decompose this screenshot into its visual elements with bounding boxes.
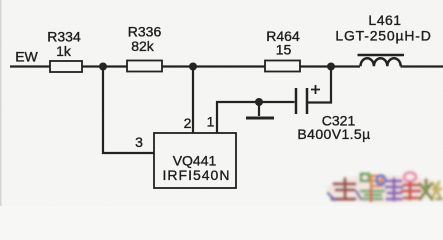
wire cap to node C — [308, 67, 331, 103]
svg-text:EW: EW — [15, 49, 38, 65]
resistor R334 — [47, 29, 82, 73]
node C junction dot — [327, 63, 335, 71]
svg-text:3: 3 — [135, 134, 143, 150]
svg-text:1: 1 — [207, 114, 215, 130]
wm char5 — [420, 180, 442, 199]
capacitor C321 — [296, 85, 371, 142]
wire main rail left segment — [10, 65, 50, 67]
svg-text:82k: 82k — [131, 38, 155, 54]
ground — [246, 102, 274, 118]
wire inductor to right edge — [401, 65, 443, 67]
wm underwash — [327, 175, 443, 203]
inductor L461 — [335, 12, 431, 66]
svg-text:1k: 1k — [56, 43, 72, 59]
svg-text:B400V1.5µ: B400V1.5µ — [297, 126, 370, 142]
wire R464 to inductor — [300, 65, 360, 67]
wire R334 to node A — [82, 65, 127, 67]
wm char4 — [402, 173, 420, 200]
wire pin 1 up and right to cap — [217, 102, 295, 133]
wire node B down to pin 2 — [192, 67, 194, 134]
wm char1 — [328, 179, 361, 200]
IC VQ441 IRFI540N — [154, 133, 236, 188]
wm char2 — [361, 174, 386, 201]
svg-text:2: 2 — [184, 115, 192, 131]
svg-text:L461: L461 — [368, 12, 401, 28]
node D junction dot — [255, 98, 263, 106]
svg-text:LGT-250µH-D: LGT-250µH-D — [335, 28, 431, 44]
wire node A down to pin 3 — [103, 67, 154, 154]
wm char3 — [386, 179, 402, 200]
svg-text:IRFI540N: IRFI540N — [163, 167, 231, 183]
resistor R336 — [127, 24, 162, 72]
svg-text:15: 15 — [276, 42, 292, 58]
node A junction dot — [99, 63, 107, 71]
resistor R464 — [265, 28, 300, 72]
node B junction dot — [189, 63, 197, 71]
watermark logo (blurry colored) — [327, 173, 443, 204]
wire R336 to R464 — [162, 65, 265, 67]
